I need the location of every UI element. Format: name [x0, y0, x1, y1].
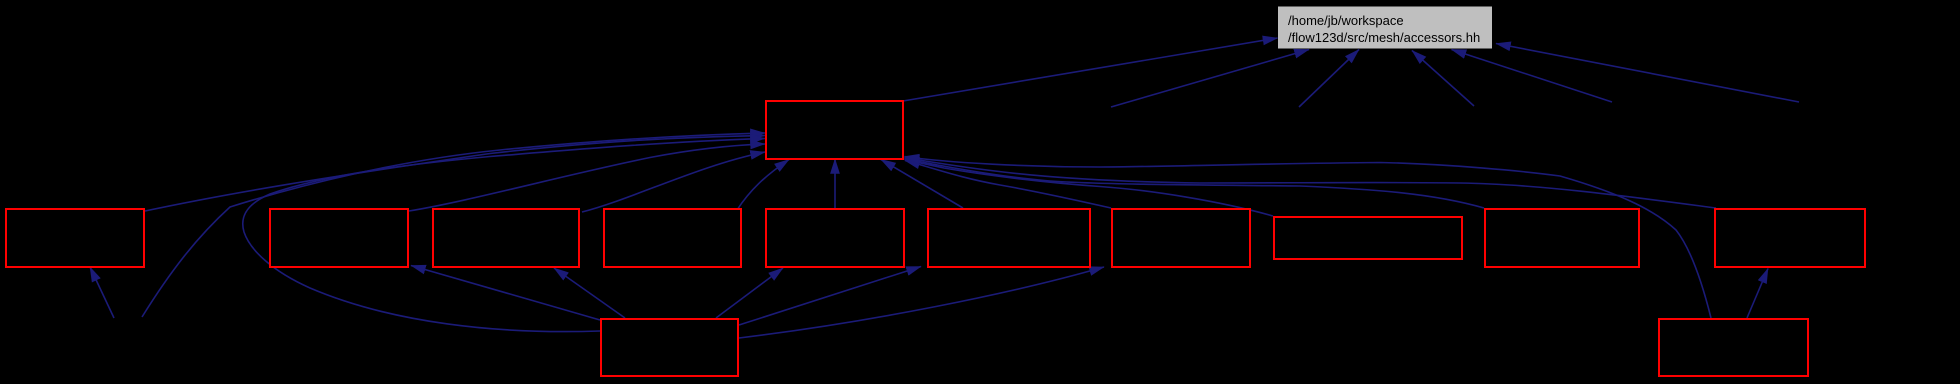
edge B3 to hub: [582, 152, 765, 212]
node accessors.hh (grey): [1278, 7, 1492, 49]
node B5: [766, 209, 904, 267]
edge node U1 to accessors.hh: [1496, 44, 1799, 103]
node B8: [1274, 217, 1462, 259]
edge BM to B3: [554, 268, 625, 318]
edge node U5 to accessors.hh: [1111, 50, 1309, 108]
node BR bottom-right: [1659, 319, 1808, 376]
edge node L to B1: [90, 267, 114, 318]
edge hub to accessors.hh: [903, 38, 1278, 101]
node B3: [433, 209, 579, 267]
edge BM to B5: [716, 268, 783, 318]
edge node U4 to accessors.hh: [1299, 50, 1359, 108]
node B6: [928, 209, 1090, 267]
edge B6 to hub: [881, 160, 963, 209]
edge BM to hub (left sweep): [243, 139, 765, 332]
edge B7 to hub: [905, 161, 1111, 209]
edge BM to B7: [739, 267, 1104, 338]
svg-text:/home/jb/workspace: /home/jb/workspace: [1288, 13, 1404, 28]
node B10: [1715, 209, 1865, 267]
node B1: [6, 209, 144, 267]
edge B8 to hub: [905, 160, 1274, 217]
node B7: [1112, 209, 1250, 267]
edge B9 to hub: [905, 159, 1485, 209]
edge B10 to hub: [905, 158, 1717, 209]
edge BR to hub (right sweep): [905, 157, 1712, 319]
node B9: [1485, 209, 1639, 267]
edge B1 to hub: [145, 136, 765, 212]
edge BM to B6: [739, 267, 921, 326]
edge B4 to hub: [737, 160, 789, 211]
node BM bottom-middle: [601, 319, 738, 376]
edge B2 to hub: [409, 144, 765, 211]
edge BM to B2: [411, 266, 600, 321]
node hub mesh.h: [766, 101, 903, 159]
svg-text:/flow123d/src/mesh/accessors.h: /flow123d/src/mesh/accessors.hh: [1288, 30, 1480, 45]
edge node U2 to accessors.hh: [1452, 50, 1613, 103]
edge node U3 to accessors.hh: [1412, 51, 1474, 107]
edge B5 to hub: [834, 159, 836, 208]
node B4: [604, 209, 741, 267]
edge node L to hub: [142, 133, 765, 317]
node B2: [270, 209, 408, 267]
edge BR to B10: [1747, 269, 1768, 319]
